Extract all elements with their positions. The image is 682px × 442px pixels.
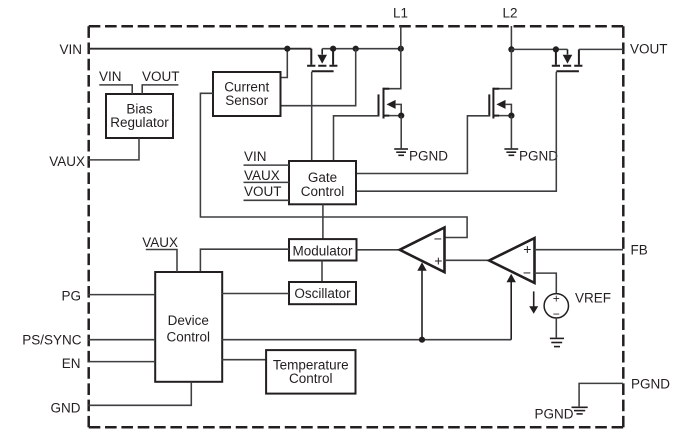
- box current sensor: [213, 72, 281, 116]
- svg-text:Oscillator: Oscillator: [294, 286, 351, 301]
- wire GND: [88, 382, 191, 406]
- wire gate control VIN input: [244, 164, 290, 166]
- current source arrow (bias): [533, 291, 535, 306]
- svg-text:+: +: [523, 241, 531, 257]
- wire gate control to modulator: [322, 204, 324, 239]
- svg-text:L2: L2: [502, 6, 517, 21]
- node Q3 source: [508, 113, 514, 119]
- wire modulator to device control: [200, 249, 289, 272]
- wire Q3 gate: [356, 116, 489, 174]
- wire ramp arrow to error amp: [421, 270, 423, 340]
- wire switch node SW1: [322, 48, 401, 50]
- wire bias VIN input: [99, 85, 132, 94]
- svg-text:PGND: PGND: [535, 407, 574, 422]
- body diode D1: [317, 49, 327, 64]
- wire gate control VOUT input: [244, 199, 290, 201]
- box bias regulator: [106, 94, 173, 138]
- svg-text:GND: GND: [51, 401, 81, 416]
- svg-text:VIN: VIN: [244, 149, 267, 164]
- wire L1 pin: [400, 26, 402, 49]
- wire bias VOUT input: [142, 85, 178, 94]
- wire switch node SW2: [511, 48, 567, 50]
- svg-text:Modulator: Modulator: [292, 244, 353, 259]
- wire PGND pin to ground: [579, 383, 623, 406]
- svg-text:VIN: VIN: [59, 42, 82, 57]
- svg-text:PGND: PGND: [409, 149, 448, 164]
- svg-text:+: +: [434, 252, 442, 268]
- node Q1 drain: [330, 46, 336, 52]
- op-amp U1 error amplifier: [400, 228, 445, 273]
- ground PGND (bottom): [572, 407, 588, 414]
- svg-text:PGND: PGND: [519, 149, 558, 164]
- box modulator: [289, 239, 357, 260]
- svg-text:Gate: Gate: [308, 170, 337, 185]
- svg-text:VOUT: VOUT: [142, 69, 180, 84]
- svg-text:−: −: [434, 231, 442, 247]
- svg-text:Device: Device: [168, 313, 209, 328]
- transistor Q3 low-side NMOS (L2 side): [489, 49, 511, 118]
- wire Q2 source to PGND: [400, 116, 402, 149]
- wire ramp arrow to comparator: [510, 282, 512, 340]
- wire PS/SYNC: [88, 339, 155, 341]
- voltage source VREF: [544, 294, 568, 318]
- node VIN/current-sensor junction: [284, 46, 290, 52]
- svg-text:PS/SYNC: PS/SYNC: [22, 333, 82, 348]
- wire modulator output to comparator tip: [357, 249, 400, 251]
- svg-text:VAUX: VAUX: [244, 168, 280, 183]
- transistor Q4 output PMOS: [552, 49, 583, 71]
- dashed IC boundary: [89, 26, 624, 427]
- wire current sensor to comparator minus: [200, 93, 467, 237]
- svg-text:VOUT: VOUT: [630, 42, 668, 57]
- svg-text:+: +: [553, 292, 560, 306]
- box device control: [155, 272, 222, 382]
- body diode D2: [563, 49, 573, 63]
- svg-text:VIN: VIN: [99, 69, 122, 84]
- wire device control VAUX input: [146, 250, 177, 273]
- transistor Q2 low-side NMOS (L1 side): [379, 49, 402, 119]
- svg-text:PG: PG: [61, 289, 81, 304]
- svg-text:EN: EN: [62, 356, 81, 371]
- svg-text:Control: Control: [167, 329, 211, 344]
- box temperature control: [266, 350, 355, 394]
- node SW1/NMOS tap: [353, 46, 359, 52]
- node L1 junction: [398, 46, 404, 52]
- svg-text:Control: Control: [301, 184, 345, 199]
- wire bias output to VAUX pin: [88, 138, 139, 160]
- svg-text:Sensor: Sensor: [225, 93, 268, 108]
- ground (VREF): [550, 338, 564, 346]
- box gate control: [289, 161, 356, 204]
- wire gate control VAUX input: [244, 181, 290, 183]
- ground PGND (Q2): [394, 149, 408, 155]
- node ramp junction: [419, 337, 425, 343]
- wire VREF to ground: [555, 318, 557, 338]
- wire FB input: [535, 249, 624, 251]
- svg-text:VOUT: VOUT: [244, 184, 282, 199]
- wire current-sensor VIN tap: [281, 49, 288, 78]
- svg-text:PGND: PGND: [631, 377, 670, 392]
- ground PGND (Q3): [504, 149, 518, 155]
- svg-text:L1: L1: [393, 6, 408, 21]
- svg-text:Control: Control: [289, 371, 333, 386]
- wire Q4 drain to VOUT: [579, 48, 623, 50]
- node L2 junction: [508, 46, 514, 52]
- svg-text:VAUX: VAUX: [142, 235, 178, 250]
- wire modulator to oscillator: [321, 261, 323, 283]
- svg-text:VREF: VREF: [575, 291, 611, 306]
- wire ramp from device control: [222, 339, 512, 341]
- wire VIN rail: [88, 48, 311, 50]
- wire L2 pin: [510, 26, 512, 49]
- op-amp U2 comparator: [489, 238, 534, 283]
- svg-text:−: −: [523, 264, 531, 280]
- node Q4 source junction: [553, 46, 559, 52]
- node Q2 source: [398, 113, 404, 119]
- wire current-sensor SW1 tap: [281, 49, 356, 106]
- wire device control to temperature control: [222, 359, 267, 361]
- svg-text:FB: FB: [631, 243, 648, 258]
- box oscillator: [289, 282, 356, 304]
- wire device control to oscillator: [222, 293, 289, 295]
- wire Q3 source to PGND: [510, 116, 512, 149]
- wire U1 plus input from U2 output: [445, 259, 490, 261]
- transistor Q1 high-side buck PMOS: [307, 49, 337, 72]
- wire Q2 gate: [334, 116, 379, 161]
- svg-text:Regulator: Regulator: [110, 115, 169, 130]
- wire PG: [88, 294, 155, 296]
- wire U2 minus to VREF: [535, 273, 557, 294]
- wire Q1 gate to gate control: [311, 72, 313, 161]
- wire EN: [88, 361, 155, 363]
- wire Q4 gate to gate control: [356, 72, 556, 191]
- svg-text:VAUX: VAUX: [49, 154, 85, 169]
